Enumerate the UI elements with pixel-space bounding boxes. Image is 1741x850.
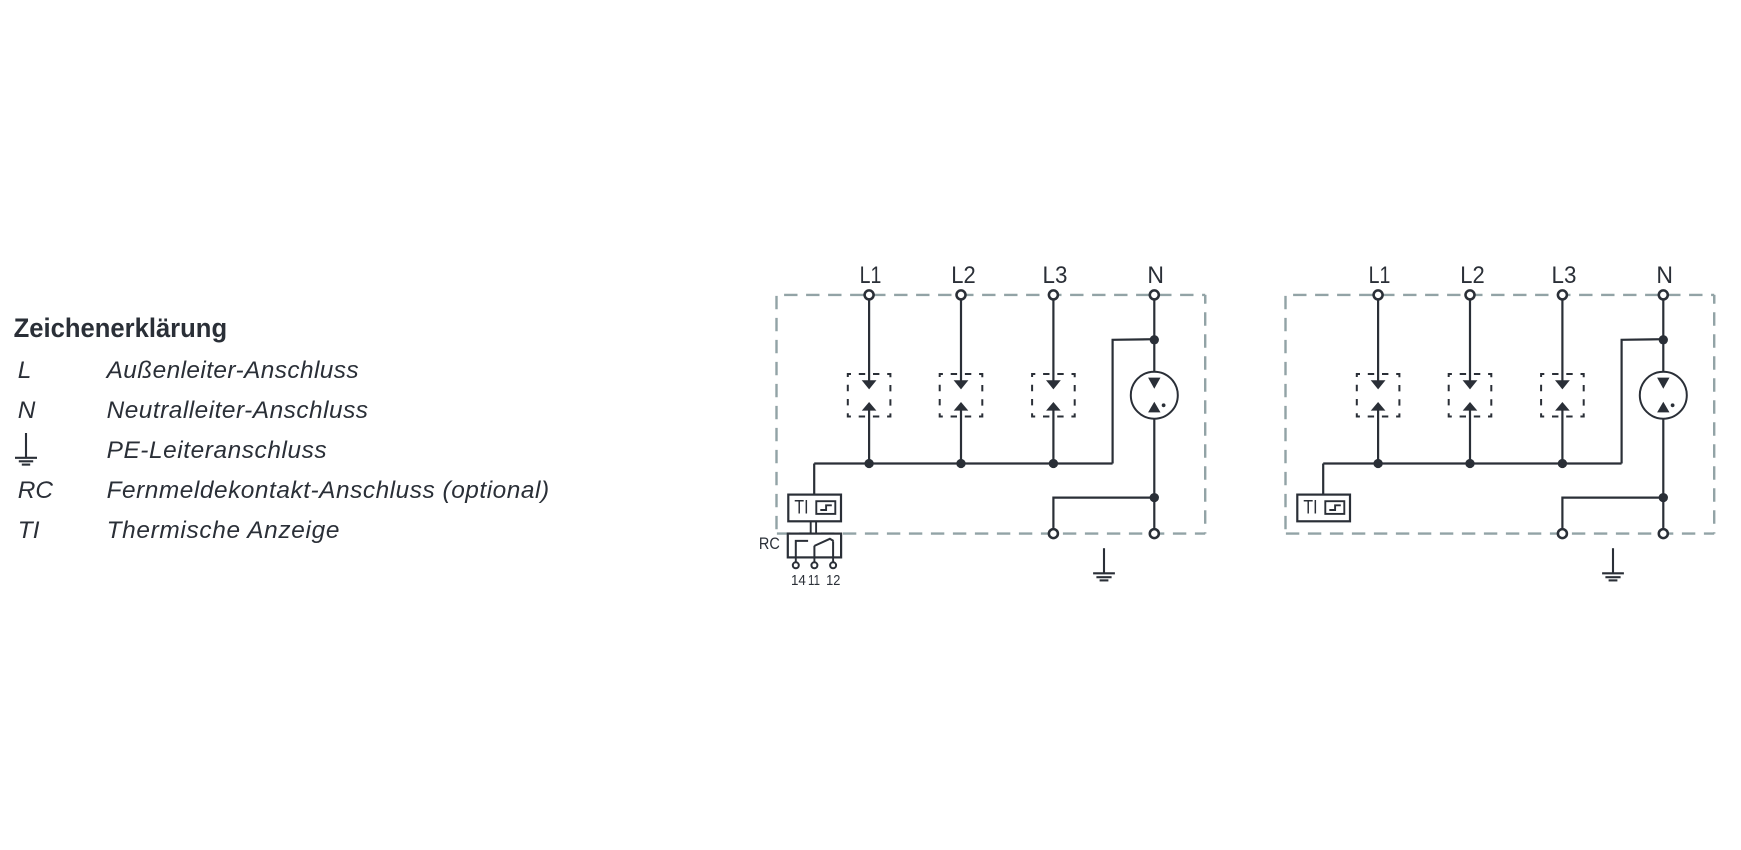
svg-text:N: N <box>1656 262 1673 289</box>
wire bus to TI <box>1322 464 1324 495</box>
bottom terminal N <box>1150 529 1159 538</box>
junction L2/bus <box>956 459 965 468</box>
thermal indicator TI <box>1297 495 1350 522</box>
junction N/PE link <box>1659 493 1668 502</box>
wire arrester L2 to bus <box>960 410 962 464</box>
spark gap N-PE (circle symbol) <box>1640 372 1687 419</box>
wire PE link to bottom terminal <box>1562 498 1663 529</box>
svg-text:L1: L1 <box>1369 262 1391 289</box>
spark gap N-PE (circle symbol) <box>1131 372 1178 419</box>
junction L3/bus <box>1049 459 1058 468</box>
bottom terminal N <box>1659 529 1668 538</box>
wire N down to spark gap <box>1153 299 1155 371</box>
terminal L1 <box>1374 290 1383 299</box>
svg-text:Neutralleiter-Anschluss: Neutralleiter-Anschluss <box>107 397 368 424</box>
wire L1 to arrester <box>1377 299 1379 380</box>
svg-text:Zeichenerklärung: Zeichenerklärung <box>14 312 228 343</box>
surge arrester L3 (dashed box with gap arrows) <box>1541 374 1584 417</box>
surge arrester L2 (dashed box with gap arrows) <box>1449 374 1492 417</box>
wire arrester L2 to bus <box>1469 410 1471 464</box>
junction L3/bus <box>1558 459 1567 468</box>
svg-text:L: L <box>18 357 32 384</box>
wire bus riser to N <box>1113 339 1155 463</box>
remote contact RC box <box>788 534 841 558</box>
bottom terminal PE <box>1049 529 1058 538</box>
terminal N <box>1150 290 1159 299</box>
wire arrester L1 to bus <box>1377 410 1379 464</box>
wire bus riser to N <box>1622 339 1664 463</box>
surge arrester L1 (dashed box with gap arrows) <box>848 374 891 417</box>
junction bus/N <box>1150 335 1159 344</box>
svg-text:TI: TI <box>18 517 40 544</box>
terminal L1 <box>865 290 874 299</box>
wire L3 to arrester <box>1561 299 1563 380</box>
enclosure dashed box <box>777 295 1206 534</box>
junction L1/bus <box>864 459 873 468</box>
wire arrester L3 to bus <box>1052 410 1054 464</box>
bus wire L1-L2-L3 <box>1323 462 1621 464</box>
svg-text:Fernmeldekontakt-Anschluss (op: Fernmeldekontakt-Anschluss (optional) <box>107 477 549 504</box>
RC leads and terminals 14 11 12 <box>793 557 836 568</box>
terminal L3 <box>1558 290 1567 299</box>
svg-text:N: N <box>1147 262 1164 289</box>
wire PE link to bottom terminal <box>1053 498 1154 529</box>
wire arrester L3 to bus <box>1561 410 1563 464</box>
wire L1 to arrester <box>868 299 870 380</box>
terminal N <box>1659 290 1668 299</box>
terminal L3 <box>1049 290 1058 299</box>
double wire TI to RC <box>810 521 812 533</box>
svg-text:TI: TI <box>794 498 808 519</box>
svg-text:L2: L2 <box>951 262 975 289</box>
thermal indicator TI <box>788 495 841 522</box>
enclosure dashed box <box>1286 295 1715 534</box>
wire bus to TI <box>813 464 815 495</box>
svg-text:14: 14 <box>791 573 806 589</box>
junction N/PE link <box>1150 493 1159 502</box>
terminal L2 <box>957 290 966 299</box>
svg-text:Thermische Anzeige: Thermische Anzeige <box>107 517 340 544</box>
bus wire L1-L2-L3 <box>814 462 1112 464</box>
svg-text:L1: L1 <box>860 262 882 289</box>
wire spark gap down to bottom terminal N <box>1662 419 1664 529</box>
surge arrester L3 (dashed box with gap arrows) <box>1032 374 1075 417</box>
junction bus/N <box>1659 335 1668 344</box>
ground (PE) <box>1093 548 1115 580</box>
wire N down to spark gap <box>1662 299 1664 371</box>
svg-text:PE-Leiteranschluss: PE-Leiteranschluss <box>107 437 327 464</box>
svg-text:TI: TI <box>1303 498 1317 519</box>
svg-text:N: N <box>18 397 36 424</box>
wire L2 to arrester <box>1469 299 1471 380</box>
svg-text:L3: L3 <box>1043 262 1068 289</box>
terminal L2 <box>1466 290 1475 299</box>
junction L1/bus <box>1373 459 1382 468</box>
wire L3 to arrester <box>1052 299 1054 380</box>
svg-text:L2: L2 <box>1460 262 1484 289</box>
wire spark gap down to bottom terminal N <box>1153 419 1155 529</box>
surge arrester L1 (dashed box with gap arrows) <box>1357 374 1400 417</box>
svg-text:L3: L3 <box>1552 262 1577 289</box>
wire L2 to arrester <box>960 299 962 380</box>
svg-text:Außenleiter-Anschluss: Außenleiter-Anschluss <box>105 357 359 384</box>
junction L2/bus <box>1465 459 1474 468</box>
surge arrester L2 (dashed box with gap arrows) <box>940 374 983 417</box>
wire arrester L1 to bus <box>868 410 870 464</box>
legend ground symbol (PE) <box>15 433 37 465</box>
svg-text:RC: RC <box>18 477 54 504</box>
svg-text:RC: RC <box>759 535 780 553</box>
ground (PE) <box>1602 548 1624 580</box>
svg-text:11: 11 <box>808 573 820 589</box>
bottom terminal PE <box>1558 529 1567 538</box>
svg-text:12: 12 <box>826 573 840 589</box>
